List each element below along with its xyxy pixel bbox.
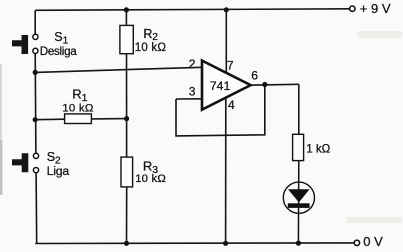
- resistor R2 body: [120, 25, 133, 53]
- node junction bottom rail / LED: [296, 241, 301, 246]
- wire R2 bottom lead to node A: [126, 54, 128, 119]
- node junction bottom rail / pin4: [223, 241, 228, 246]
- scan smudge right top: [358, 31, 402, 38]
- svg-text:6: 6: [251, 68, 258, 82]
- op-amp U1 741 triangle: [202, 61, 251, 110]
- switch S1 bottom contact: [33, 48, 38, 53]
- svg-text:0 V: 0 V: [363, 234, 383, 249]
- resistor R1 body: [65, 114, 92, 124]
- wire pin2 input: [35, 67, 202, 72]
- node junction left rail / pin2: [33, 70, 38, 75]
- wire 0V bottom rail: [35, 242, 354, 245]
- svg-text:Desliga: Desliga: [40, 45, 77, 58]
- svg-text:741: 741: [210, 79, 231, 93]
- LED D1 triangle anode: [288, 189, 310, 202]
- terminal 0V: [354, 240, 359, 245]
- LED D1 cathode bar: [288, 203, 310, 208]
- wire pin3 stub: [176, 98, 202, 100]
- wire output to 1k resistor: [298, 84, 300, 134]
- node junction top rail / pin7: [224, 7, 229, 12]
- wire 1k to LED to 0V rail: [297, 161, 299, 244]
- wire left rail lower segment: [35, 173, 38, 244]
- svg-text:4: 4: [228, 98, 235, 112]
- scan smudge right bottom: [346, 217, 402, 223]
- LED D1 circle: [283, 182, 314, 213]
- svg-text:10 kΩ: 10 kΩ: [135, 42, 167, 54]
- wire R1 right lead: [91, 118, 126, 120]
- svg-text:7: 7: [227, 59, 234, 73]
- switch S1 top contact: [33, 34, 38, 39]
- svg-text:3: 3: [189, 85, 196, 99]
- terminal +9V: [350, 6, 355, 11]
- svg-text:+ 9 V: + 9 V: [360, 1, 391, 16]
- wire left rail middle segment: [34, 54, 37, 154]
- switch S1 pushbutton actuator: [12, 35, 28, 54]
- wire R3 bottom lead: [126, 187, 128, 244]
- switch S2 pushbutton actuator: [12, 153, 28, 172]
- switch S2 top contact: [33, 153, 38, 158]
- wire R1 left lead: [35, 118, 64, 121]
- node junction left rail / R1: [33, 117, 38, 122]
- node junction output / feedback: [262, 82, 267, 87]
- node A junction R1/R2/R3: [124, 116, 129, 121]
- svg-text:Liga: Liga: [47, 164, 70, 178]
- svg-text:1 kΩ: 1 kΩ: [306, 142, 330, 155]
- svg-text:2: 2: [189, 57, 196, 71]
- wire feedback loop: [176, 85, 265, 136]
- switch S2 bottom contact: [33, 168, 38, 173]
- wire R2 top lead: [125, 10, 127, 26]
- scan smudge left edge: [0, 64, 2, 140]
- wire output pin6: [251, 83, 299, 86]
- node junction top rail / R2: [124, 7, 129, 12]
- wire pin4 ground: [225, 97, 227, 243]
- resistor R3 body: [121, 157, 133, 187]
- wire pin7 supply: [225, 10, 227, 74]
- svg-text:10 kΩ: 10 kΩ: [135, 173, 166, 185]
- resistor R4 1k body: [293, 134, 304, 160]
- node junction bottom rail / R3: [124, 241, 129, 246]
- wire left rail upper segment: [34, 10, 36, 34]
- svg-text:10 kΩ: 10 kΩ: [62, 102, 94, 114]
- wire +9V top rail: [35, 9, 349, 11]
- wire R3 top lead: [126, 119, 128, 158]
